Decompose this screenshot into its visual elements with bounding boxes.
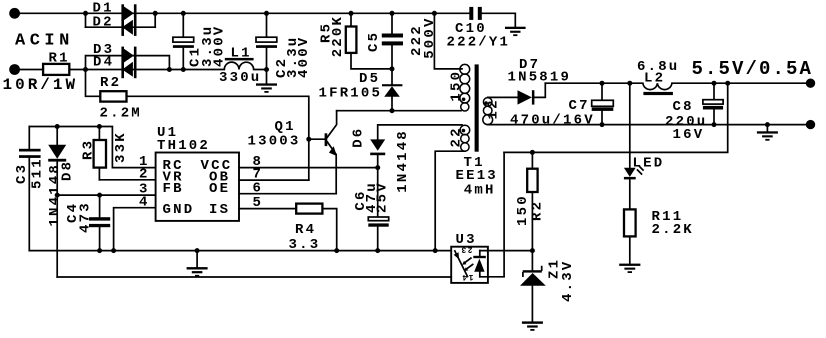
capacitor C2 3.3u/400V: [266, 13, 268, 83]
transformer T1 primary 150T: [434, 13, 462, 69]
diode D6 1N4148: [378, 125, 462, 217]
svg-text:12: 12: [486, 98, 502, 119]
wire U3 collector to feedback node: [480, 250, 533, 252]
svg-text:3.3: 3.3: [289, 237, 321, 253]
diode D1: [123, 6, 134, 21]
LED indicator: [629, 83, 631, 209]
label C4: [65, 202, 81, 223]
label D8: [60, 160, 76, 181]
terminal output -: [806, 120, 815, 129]
wire FB low rail: [57, 276, 451, 278]
value 4.3V: [560, 260, 576, 302]
inductor L2 core bar: [643, 92, 673, 95]
svg-text:4.3V: 4.3V: [560, 260, 576, 302]
ground below C10: [505, 27, 526, 29]
diode D7 1N5819: [488, 83, 546, 97]
svg-text:13003: 13003: [248, 133, 301, 149]
svg-text:330u: 330u: [219, 70, 261, 86]
value C1 3.3u: [200, 25, 216, 67]
value 33K: [113, 131, 129, 163]
value C2 3.3u: [285, 36, 301, 78]
svg-text:220K: 220K: [330, 15, 346, 57]
wire D1/D2 right drop: [154, 13, 156, 27]
wire ground rail: [29, 250, 451, 252]
resistor R2 2.2M: [86, 70, 309, 181]
svg-text:473: 473: [78, 201, 94, 233]
svg-text:R3: R3: [80, 139, 96, 160]
capacitor C4 473: [99, 195, 101, 251]
transistor Q1 13003: [306, 137, 311, 142]
value winding 12: [486, 98, 502, 119]
svg-text:1N4148: 1N4148: [47, 163, 63, 227]
svg-text:LED: LED: [633, 156, 665, 172]
node rectifier output top: [153, 11, 158, 16]
diode D8 1N4148: [56, 127, 58, 278]
transformer T1 secondary 12T: [483, 98, 492, 107]
node D5 anode junction: [390, 108, 395, 113]
wire top rail: [155, 12, 469, 14]
label C6: [353, 189, 369, 210]
svg-text:C5: C5: [366, 31, 382, 52]
resistor R1: [19, 69, 86, 71]
resistor R5 220K: [351, 13, 392, 69]
terminal AC input bottom: [9, 64, 20, 75]
svg-text:222/Y1: 222/Y1: [447, 35, 511, 51]
diode D4: [122, 62, 133, 77]
label C5: [366, 31, 382, 52]
svg-text:400V: 400V: [211, 25, 227, 67]
svg-text:D6: D6: [350, 127, 366, 148]
value C2 400V: [296, 36, 312, 78]
wire pin8 VCC: [239, 167, 378, 169]
wire D2 line: [86, 26, 156, 28]
transformer T1 aux winding 22T: [460, 125, 470, 135]
wire lower AC line: [86, 69, 170, 71]
node rectifier bottom junction: [167, 67, 172, 72]
cathode bar left D3/D4: [121, 47, 124, 79]
wire pin7 to base: [239, 179, 309, 181]
resistor R3 33K: [98, 127, 100, 180]
capacitor C6 47u/25V: [377, 227, 379, 251]
svg-text:10R/1W: 10R/1W: [3, 76, 79, 94]
svg-text:470u/16V: 470u/16V: [510, 113, 595, 129]
diode D2: [122, 20, 133, 35]
ground output: [766, 125, 768, 132]
svg-text:23: 23: [460, 245, 473, 254]
inductor L1 core bar: [225, 58, 254, 61]
svg-text:R2: R2: [100, 75, 121, 91]
svg-text:16V: 16V: [673, 127, 705, 143]
label R3: [80, 139, 96, 160]
node AC bottom junction: [83, 67, 88, 72]
svg-text:C8: C8: [673, 99, 694, 115]
optocoupler U3: [451, 247, 488, 283]
wire pin6 to emitter: [239, 193, 336, 195]
value C6 47u: [364, 181, 380, 213]
value C5 500V: [422, 16, 438, 58]
wire aux winding bottom to ground: [435, 151, 465, 250]
terminal AC input top: [9, 8, 20, 19]
svg-text:L1: L1: [231, 45, 252, 61]
label Z1: [546, 258, 562, 279]
capacitor C7 470u/16V: [601, 83, 603, 124]
wire pin2: [99, 179, 155, 181]
wire output - rail: [488, 124, 806, 126]
svg-text:C3: C3: [14, 163, 30, 184]
terminal output +: [806, 79, 815, 88]
svg-text:500V: 500V: [422, 16, 438, 58]
svg-text:ACIN: ACIN: [15, 32, 74, 51]
svg-text:FB: FB: [163, 181, 184, 197]
capacitor C1 3.3u/400V: [182, 13, 184, 69]
diode D3: [123, 48, 134, 63]
label C1: [188, 46, 204, 67]
value C5 222: [409, 24, 425, 56]
value 150: [515, 194, 531, 226]
resistor R4 3.3: [239, 209, 337, 251]
wire pin3 FB: [57, 194, 155, 196]
diode D5 1FR105: [391, 69, 393, 111]
value D8 1N4148: [47, 163, 63, 227]
svg-text:150: 150: [449, 70, 465, 102]
label R2 feedback: [530, 200, 546, 221]
ground LED/R11: [619, 264, 640, 266]
svg-text:IS: IS: [209, 202, 230, 218]
svg-text:25V: 25V: [374, 181, 390, 213]
cathode bar right D3/D4: [134, 47, 137, 79]
node AC top junction: [83, 11, 88, 16]
value C3 511: [29, 157, 45, 189]
value C6 25V: [374, 181, 390, 213]
svg-text:150: 150: [515, 194, 531, 226]
wire VCC top left: [29, 127, 155, 168]
cathode bar left D1/D2: [121, 4, 124, 36]
wire pin4 GND: [114, 208, 156, 251]
svg-text:5.5V/0.5A: 5.5V/0.5A: [692, 58, 814, 80]
label R5: [319, 22, 335, 43]
svg-text:R1: R1: [49, 51, 70, 67]
svg-text:D2: D2: [93, 14, 114, 30]
capacitor C8 220u/16V: [713, 83, 715, 124]
value winding 150: [449, 70, 465, 102]
wire D1/D2 left drop: [85, 13, 87, 27]
svg-text:TH102: TH102: [157, 138, 210, 154]
wire D3 line: [86, 56, 170, 70]
value C1 400V: [211, 25, 227, 67]
resistor R2 150 (fb): [531, 152, 533, 250]
svg-text:D4: D4: [93, 55, 114, 71]
svg-text:22: 22: [448, 126, 464, 147]
svg-text:R2: R2: [530, 200, 546, 221]
value D6 1N4148: [395, 129, 411, 193]
ground U1: [196, 251, 198, 268]
wire lower rail with inductor L1: [169, 62, 266, 69]
ground below C2: [256, 83, 277, 85]
value winding 22: [448, 126, 464, 147]
svg-text:2.2K: 2.2K: [652, 222, 694, 238]
svg-text:R4: R4: [295, 222, 316, 238]
svg-text:511: 511: [29, 157, 45, 189]
svg-text:1N4148: 1N4148: [395, 129, 411, 193]
svg-text:6.8u: 6.8u: [637, 59, 679, 75]
transformer T1 core bar: [475, 64, 479, 151]
IC U1 TH102: [156, 153, 239, 221]
value 220K: [330, 15, 346, 57]
wire top AC line: [18, 12, 155, 14]
svg-text:GND: GND: [163, 202, 195, 218]
zener Z1 4.3V: [531, 251, 533, 322]
cathode bar right D1/D2: [134, 4, 137, 36]
svg-text:400V: 400V: [296, 36, 312, 78]
wire U3 emitter to fb rail: [480, 152, 504, 276]
svg-text:33K: 33K: [113, 131, 129, 163]
svg-text:OE: OE: [209, 181, 230, 197]
resistor R11 2.2K: [629, 236, 631, 263]
capacitor C3 511: [28, 127, 30, 251]
label C2: [274, 57, 290, 78]
capacitor C5 222/500V: [391, 13, 393, 69]
label C3: [14, 163, 30, 184]
wire output + rail with L2: [545, 83, 806, 89]
svg-text:4mH: 4mH: [464, 182, 496, 198]
label D6: [350, 127, 366, 148]
value C4 473: [78, 201, 94, 233]
svg-text:2.2M: 2.2M: [100, 105, 142, 121]
wire collector rail: [337, 110, 461, 112]
ground below Z1: [522, 321, 543, 323]
svg-text:1FR105: 1FR105: [319, 85, 383, 101]
wire feedback rail: [504, 83, 728, 152]
svg-text:14: 14: [461, 272, 474, 281]
capacitor C10 222/Y1: [482, 13, 516, 26]
